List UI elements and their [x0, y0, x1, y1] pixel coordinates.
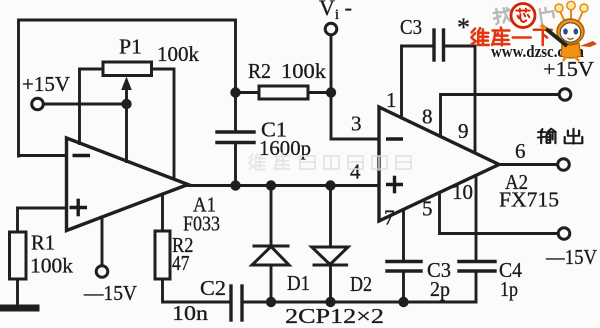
node D1 top — [266, 180, 276, 190]
wire A1 output bus — [187, 184, 379, 187]
svg-text:2p: 2p — [430, 277, 450, 301]
resistor R1 — [10, 232, 27, 279]
terminal +15V right — [559, 89, 571, 101]
node D1 bottom — [266, 297, 276, 307]
capacitor C1 — [217, 93, 254, 186]
svg-text:Vi -: Vi - — [319, 0, 352, 23]
svg-text:—15V: —15V — [545, 245, 597, 269]
svg-text:8: 8 — [422, 105, 433, 129]
terminal Vi input — [325, 23, 337, 92]
terminal -15V left — [96, 217, 108, 277]
svg-text:100k: 100k — [281, 59, 327, 83]
wire A1 inverting input — [19, 154, 67, 157]
capacitor C4 — [459, 175, 495, 302]
capacitor C3 star — [402, 30, 476, 153]
capacitor C2 — [231, 286, 271, 320]
svg-text:100k: 100k — [30, 254, 74, 278]
svg-text:6: 6 — [515, 139, 526, 163]
ground — [2, 305, 37, 312]
node C1 top — [230, 87, 240, 97]
wire -15V rail right — [440, 193, 559, 234]
capacitor C3 2p — [387, 210, 421, 303]
watermark weikuyixia red — [472, 27, 552, 45]
diode D2 — [312, 186, 348, 303]
resistor R2 100k — [236, 86, 332, 99]
svg-text:R1: R1 — [31, 231, 55, 255]
watermark xin char — [516, 9, 529, 22]
terminal -15V right — [558, 228, 570, 240]
svg-text:100k: 100k — [157, 42, 200, 66]
wire A1 noninverting input — [18, 208, 67, 232]
svg-text:—15V: —15V — [83, 281, 137, 305]
label minus A2 — [386, 137, 403, 140]
wire R1 to ground — [16, 279, 19, 305]
resistor R2 47 — [155, 194, 231, 302]
svg-text:3: 3 — [351, 112, 362, 136]
svg-text:7: 7 — [384, 206, 395, 230]
svg-text:P1: P1 — [119, 35, 142, 59]
watermark mascot — [541, 1, 597, 61]
svg-text:C3: C3 — [400, 15, 422, 39]
watermark faint center — [249, 153, 411, 171]
watermark pian char — [540, 7, 555, 24]
potentiometer P1 — [80, 62, 175, 179]
wire bottom bus — [271, 301, 476, 304]
svg-text:*: * — [457, 13, 470, 42]
node D2 bottom — [325, 297, 335, 307]
terminal +15V left — [32, 98, 44, 110]
wire to A2 pin3 — [331, 93, 379, 140]
svg-text:D1: D1 — [287, 271, 310, 295]
svg-text:R2: R2 — [248, 59, 271, 83]
wire feedback loop top — [19, 20, 236, 156]
svg-text:+15V: +15V — [22, 72, 70, 96]
svg-text:1p: 1p — [500, 277, 518, 301]
svg-text:10: 10 — [452, 180, 473, 204]
svg-text:1: 1 — [386, 88, 397, 112]
wire +15V to wiper — [44, 103, 127, 106]
svg-text:10n: 10n — [172, 301, 209, 325]
diode D1 — [252, 186, 289, 303]
svg-text:2CP12×2: 2CP12×2 — [285, 304, 384, 328]
label plus A1 — [70, 199, 88, 217]
wire A2 output — [498, 163, 558, 166]
label minus A1 — [73, 154, 91, 157]
svg-text:F033: F033 — [183, 212, 220, 236]
node D2 top — [325, 180, 335, 190]
terminal output — [558, 159, 570, 171]
op-amp A1 — [67, 138, 189, 231]
svg-text:D2: D2 — [350, 272, 372, 296]
node C3 2p bottom — [398, 297, 408, 307]
node C1 bottom — [230, 180, 240, 190]
label output CJK — [538, 129, 583, 144]
watermark zhao char — [493, 7, 512, 25]
svg-text:5: 5 — [422, 197, 433, 221]
node R2 right — [326, 87, 336, 97]
svg-text:4: 4 — [350, 160, 361, 184]
node wiper junction — [121, 99, 131, 109]
watermark xin circle — [511, 4, 535, 28]
wire +15V rail right — [441, 95, 560, 137]
svg-text:47: 47 — [172, 251, 190, 275]
svg-text:C2: C2 — [200, 276, 226, 300]
op-amp A2 — [379, 107, 499, 221]
svg-text:FX715: FX715 — [499, 188, 559, 212]
label plus A2 — [386, 176, 403, 194]
svg-text:9: 9 — [458, 119, 469, 143]
